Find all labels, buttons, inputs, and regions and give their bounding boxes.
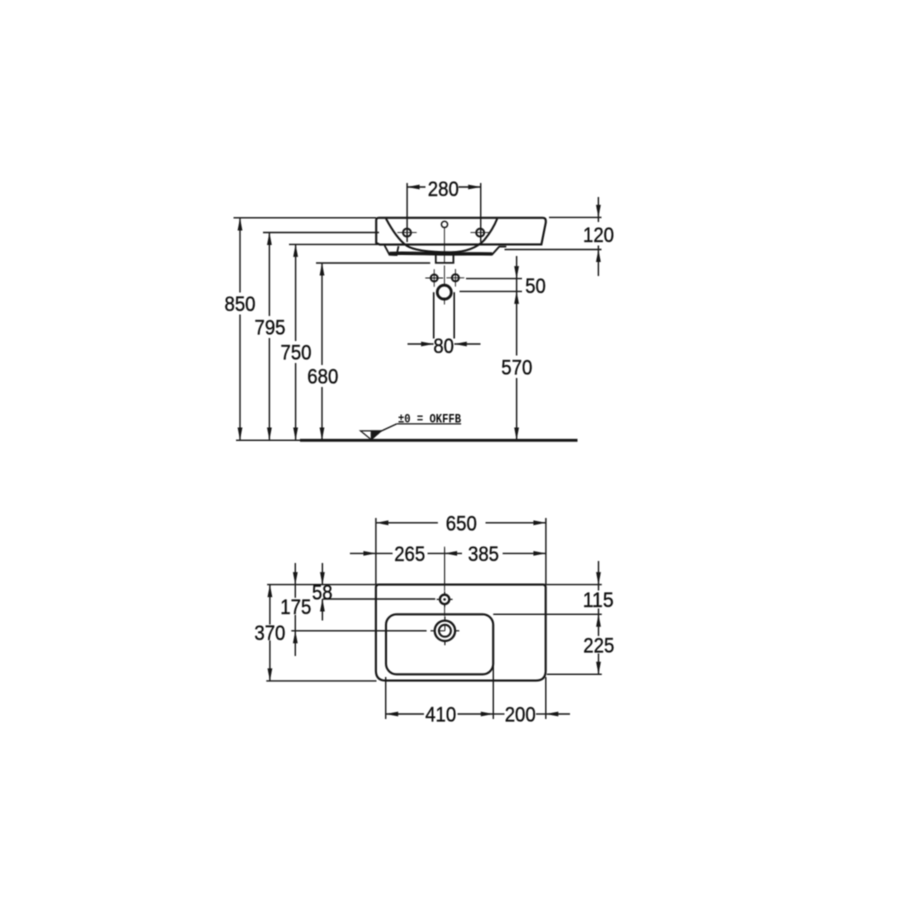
dimension 850 vertical line <box>225 218 256 440</box>
trap tailpipe <box>434 292 455 338</box>
svg-text:795: 795 <box>255 317 286 340</box>
dimension 265-385 center extension <box>444 548 446 585</box>
plan tap hole extension line <box>323 598 436 600</box>
drain spigot <box>436 254 454 263</box>
svg-text:410: 410 <box>425 704 456 727</box>
dimension 750 vertical line <box>281 244 312 440</box>
dimension 650 extension lines <box>376 518 546 585</box>
basin right support tab <box>492 247 507 255</box>
svg-text:850: 850 <box>225 293 256 316</box>
plan basin outline <box>376 585 546 681</box>
dimension 225 line and label <box>583 614 614 674</box>
svg-text:80: 80 <box>433 335 454 358</box>
dimension 795 vertical line <box>255 233 286 441</box>
dimension 370 line and label <box>254 585 285 681</box>
floor level marker plus-minus zero OKFFB <box>361 412 462 440</box>
plan bowl-bottom extension line right <box>547 673 602 675</box>
dimension 50 line and label <box>514 256 546 298</box>
dimension 410 line and label <box>386 704 494 727</box>
centerline through spigot <box>443 228 445 305</box>
right fixing hole elevation <box>471 229 490 237</box>
extension line 680 level <box>316 262 430 264</box>
basin left support tab <box>385 246 399 256</box>
floor line <box>236 439 578 441</box>
left fixing hole elevation <box>397 229 416 237</box>
svg-text:50: 50 <box>525 275 546 298</box>
svg-text:680: 680 <box>307 366 338 389</box>
svg-text:200: 200 <box>505 704 536 727</box>
dimension 115 arrows and label <box>583 561 614 614</box>
plan bottom extension line <box>266 680 376 682</box>
dimension 280 right extension line <box>480 183 482 242</box>
dimension 58 arrows and label <box>312 563 333 621</box>
svg-text:570: 570 <box>501 356 532 379</box>
svg-text:58: 58 <box>312 582 333 605</box>
svg-text:370: 370 <box>254 622 285 645</box>
basin elevation outline <box>376 218 546 245</box>
svg-text:750: 750 <box>281 342 312 365</box>
plan vertical centerline <box>444 547 446 616</box>
dimension 265 line and label <box>350 543 462 566</box>
extension line 850 level <box>234 217 377 219</box>
dimension 80 line and label <box>408 335 481 358</box>
basin bowl front curve <box>386 219 497 253</box>
plan top extension line level <box>267 584 602 586</box>
dimension 175 arrows and label <box>280 563 311 656</box>
dimension 280 line and label <box>407 178 481 201</box>
dimension 50 extension lines <box>460 279 523 292</box>
dimension 410-200 extension lines <box>386 665 546 719</box>
svg-text:650: 650 <box>446 512 477 535</box>
trap left bolt hole <box>425 269 443 287</box>
dimension 120 line and label <box>583 197 614 276</box>
extension line 750 level <box>289 243 378 245</box>
svg-text:385: 385 <box>468 543 499 566</box>
svg-text:175: 175 <box>280 596 311 619</box>
extension line 795 level <box>263 232 379 234</box>
trap right bolt hole <box>447 269 465 287</box>
plan tap hole <box>437 591 453 607</box>
plan drain hole <box>431 616 460 645</box>
plan bowl inner outline <box>386 614 493 674</box>
dimension 650 line and label <box>376 512 546 535</box>
svg-text:280: 280 <box>428 178 459 201</box>
dimension 200 line and label <box>493 704 570 727</box>
svg-text:120: 120 <box>583 224 614 247</box>
svg-text:265: 265 <box>394 543 425 566</box>
svg-text:115: 115 <box>583 589 614 612</box>
dimension 570 line and label <box>501 291 532 440</box>
basin apron bottom thick edge <box>390 252 493 256</box>
plan drain extension line <box>291 630 426 632</box>
dimension 385 line and label <box>468 543 546 566</box>
dimension 280 left extension line <box>406 183 408 242</box>
dimension 120 extension lines <box>505 217 602 249</box>
svg-text:225: 225 <box>583 634 614 657</box>
overflow hole <box>441 221 447 227</box>
dimension 680 vertical line <box>307 263 338 440</box>
trap drain circle <box>437 285 451 299</box>
plan bowl-top extension line right <box>493 613 602 615</box>
